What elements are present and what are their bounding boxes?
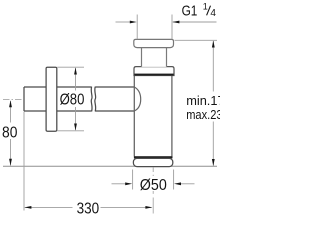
svg-text:1: 1 bbox=[203, 2, 208, 12]
svg-text:330: 330 bbox=[77, 200, 100, 217]
svg-text:4: 4 bbox=[210, 8, 216, 19]
svg-text:max.230: max.230 bbox=[186, 107, 220, 122]
svg-text:min.170: min.170 bbox=[186, 93, 220, 108]
svg-text:80: 80 bbox=[2, 124, 18, 141]
svg-text:G1: G1 bbox=[182, 3, 198, 19]
svg-text:Ø80: Ø80 bbox=[60, 92, 85, 109]
svg-text:Ø50: Ø50 bbox=[140, 177, 167, 194]
